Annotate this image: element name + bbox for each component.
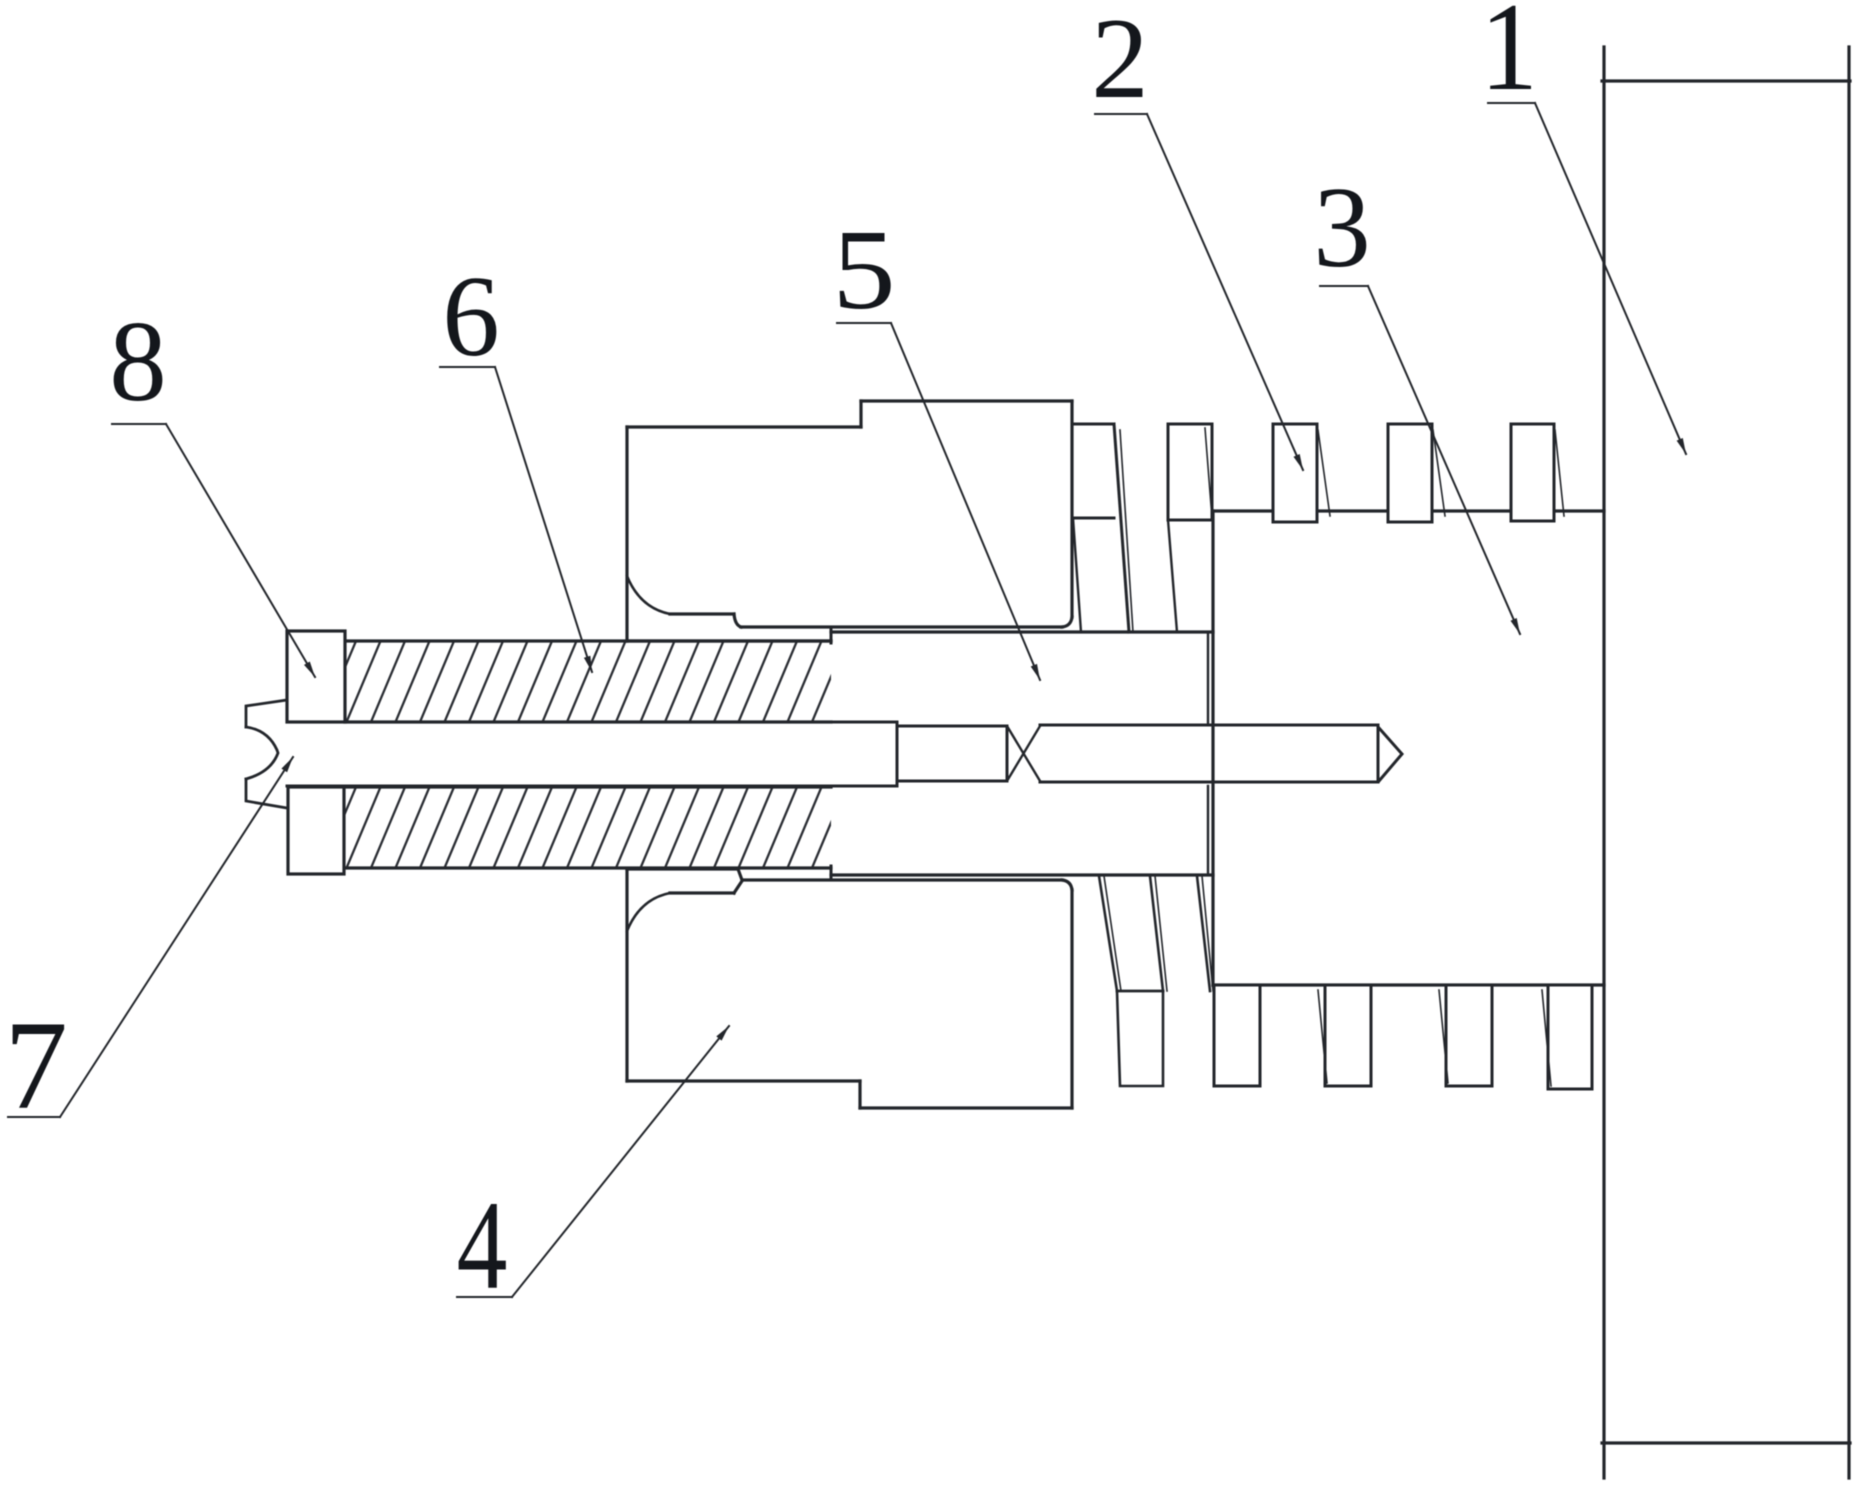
block 3 top tooth E — [1511, 424, 1564, 521]
screw head with recess (part 7 pointer target) — [246, 700, 287, 808]
svg-text:6: 6 — [442, 253, 500, 380]
lower housing (part 4) — [627, 869, 1072, 1108]
leader line 6 — [440, 367, 592, 672]
leader line 5 — [837, 323, 1040, 680]
threaded sleeve hatch top band (part 6) — [322, 641, 846, 722]
svg-text:2: 2 — [1091, 0, 1149, 122]
svg-text:5: 5 — [832, 206, 895, 333]
part 5 block — [831, 630, 1213, 877]
block 3 body — [1213, 511, 1604, 985]
bottom mesh strip R — [1197, 876, 1213, 991]
svg-text:1: 1 — [1480, 0, 1538, 117]
block 3 top tooth C — [1273, 424, 1330, 522]
leader line 2 — [1095, 114, 1303, 470]
top mesh tooth A (on part 2 sleeve) — [1072, 424, 1133, 632]
bottom mesh strip Q — [1150, 876, 1167, 991]
shaft right section with tip — [1040, 725, 1402, 782]
bottom mesh strip P — [1099, 876, 1163, 1086]
svg-text:3: 3 — [1313, 164, 1371, 291]
upper housing (part 4 top half) — [627, 401, 1072, 641]
svg-text:4: 4 — [457, 1175, 508, 1315]
svg-text:8: 8 — [109, 298, 167, 425]
block 3 bottom tooth H — [1439, 985, 1492, 1086]
leader line 1 — [1488, 103, 1686, 454]
top mesh tooth B — [1168, 424, 1212, 632]
shaft break X symbol — [1007, 726, 1040, 781]
leader line 4 — [457, 1026, 729, 1297]
block 3 bottom tooth F — [1214, 985, 1260, 1086]
flange nut top (part 8) — [287, 631, 345, 722]
leader line 3 — [1320, 286, 1520, 634]
block 3 top tooth D — [1388, 424, 1445, 522]
shaft (central rod) — [287, 722, 1007, 786]
block 3 bottom tooth G — [1318, 985, 1371, 1086]
svg-text:7: 7 — [4, 996, 68, 1136]
leader line 8 — [112, 424, 315, 677]
flange nut bottom (part 8) — [288, 787, 344, 874]
leader line 7 — [8, 757, 293, 1117]
block 3 bottom tooth I — [1542, 985, 1592, 1089]
threaded sleeve hatch bottom band (part 6) — [322, 787, 846, 868]
wall (part 1) — [1602, 47, 1850, 1478]
